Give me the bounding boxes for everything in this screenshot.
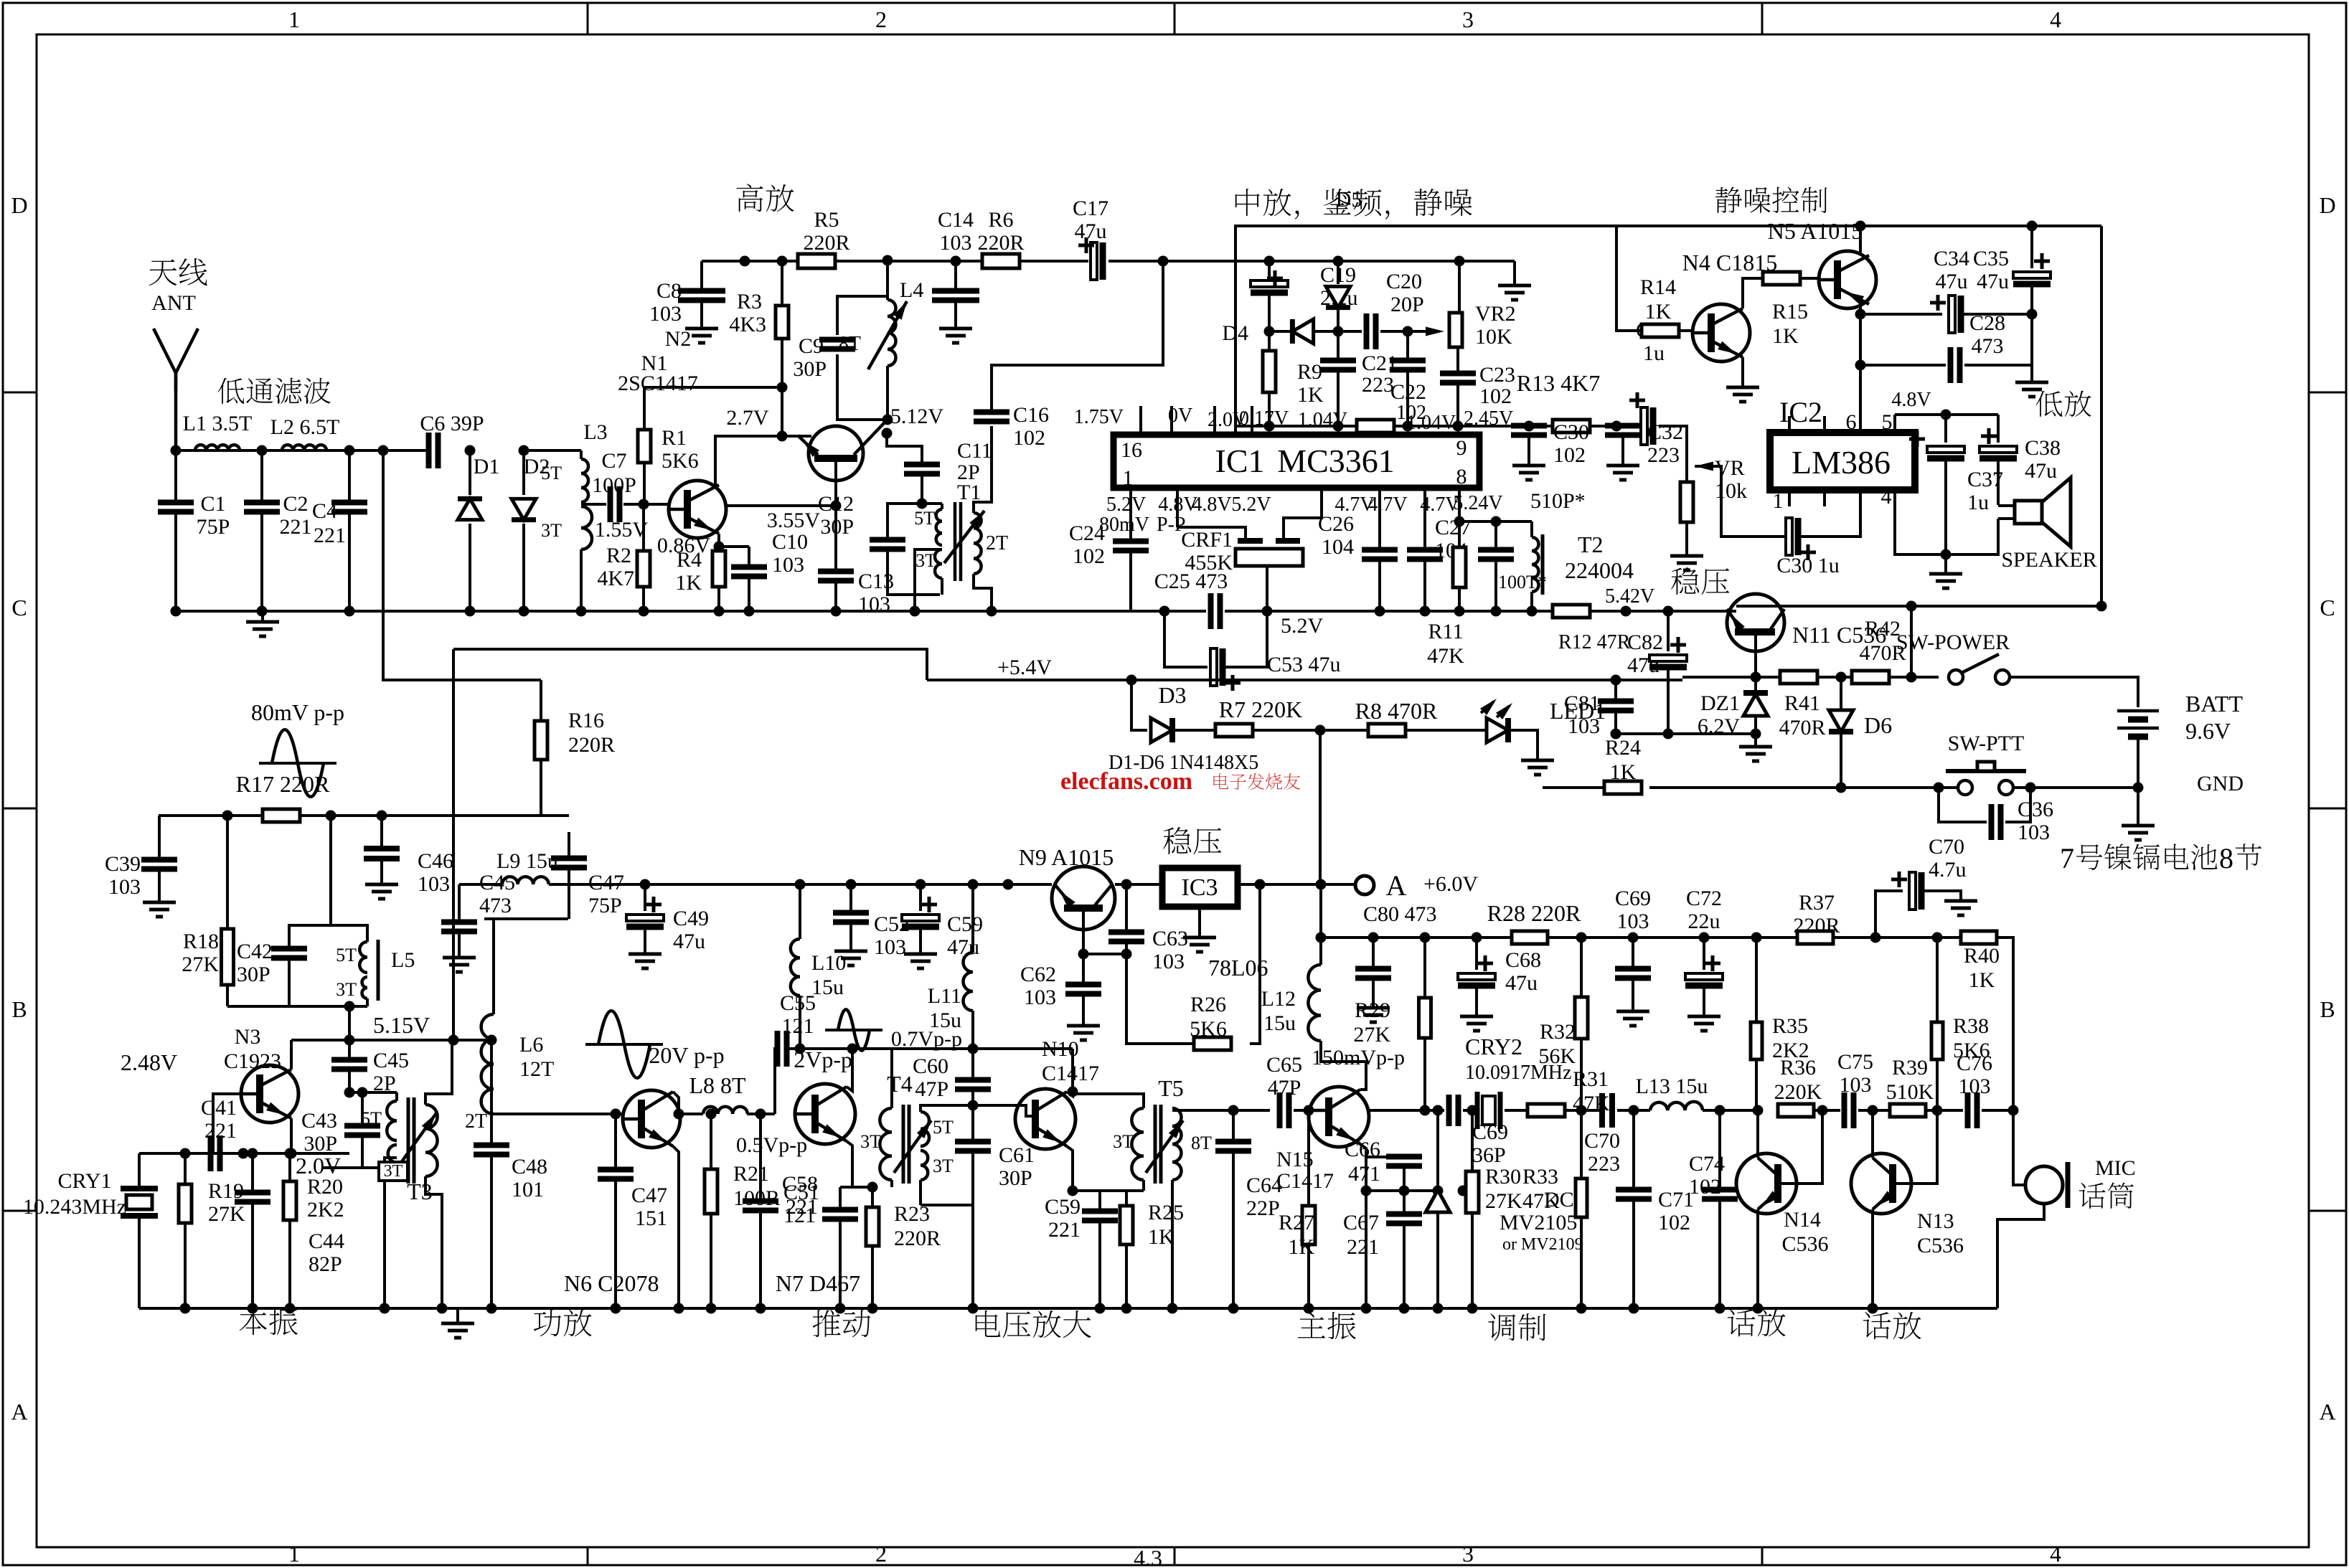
wire C16 top to rail	[992, 261, 1163, 412]
node C74 top	[1715, 1105, 1726, 1116]
wire R40 to mic bias	[1997, 938, 2013, 1110]
svg-text:103: 103	[649, 302, 682, 326]
grid tick right C|B	[2309, 808, 2346, 810]
svg-text:C1417: C1417	[1276, 1169, 1334, 1193]
capacitor C75 103	[1842, 1092, 1847, 1128]
node C25 left	[1159, 606, 1170, 617]
svg-text:C14: C14	[938, 208, 974, 232]
svg-text:R15: R15	[1772, 300, 1808, 323]
svg-text:5T: 5T	[914, 508, 935, 529]
svg-text:30P: 30P	[793, 357, 827, 381]
wire rail R5-C14	[835, 260, 982, 263]
resistor R7 220K	[1215, 724, 1253, 737]
resistor R40 1K	[1961, 931, 1997, 944]
svg-text:C74: C74	[1689, 1152, 1725, 1176]
wire y1608	[139, 1152, 349, 1155]
wire N10 emitter	[1067, 1146, 1073, 1191]
node A-line L12	[1316, 879, 1327, 890]
node C74 bus	[1715, 1303, 1726, 1314]
wire tank to 5.15V node	[348, 1006, 351, 1040]
svg-text:T5: T5	[1158, 1075, 1184, 1101]
svg-text:C42: C42	[237, 940, 273, 963]
wire DZ1 ground	[1754, 734, 1757, 747]
title RF amp 高放	[737, 184, 763, 212]
svg-text:1: 1	[1773, 489, 1784, 513]
capacitor C60 47P	[971, 1089, 974, 1105]
node N10 coll	[1068, 1087, 1078, 1097]
svg-text:221: 221	[786, 1195, 818, 1219]
svg-text:220R: 220R	[894, 1227, 941, 1250]
svg-text:R4: R4	[677, 548, 702, 572]
wire emitter to C10	[719, 545, 749, 548]
wire VR wiper to C30-1u loop	[1710, 466, 1784, 537]
capacitor C1 75P	[174, 450, 177, 502]
svg-text:C16: C16	[1013, 403, 1049, 427]
svg-text:L4: L4	[900, 278, 923, 302]
svg-text:47K: 47K	[1522, 1189, 1560, 1213]
svg-text:IC2: IC2	[1779, 396, 1822, 428]
title regulator 稳压 right	[1671, 567, 1699, 595]
wire Y594 line	[1235, 425, 1616, 428]
svg-text:47u: 47u	[947, 935, 979, 959]
wire R14 to N4	[1679, 329, 1694, 332]
wire 4.8V line	[1895, 413, 1998, 416]
node rail D5 area1	[1264, 256, 1275, 267]
node ptt right	[2025, 783, 2036, 793]
ground bottom bus 1	[456, 1308, 459, 1323]
capacitor C42 30P	[289, 925, 331, 948]
svg-text:C65: C65	[1266, 1053, 1302, 1077]
svg-text:2T: 2T	[465, 1110, 487, 1133]
capacitor C27 104	[1423, 488, 1426, 549]
svg-text:C17: C17	[1073, 197, 1108, 220]
svg-text:104: 104	[1322, 535, 1354, 559]
node R2 bus	[639, 606, 649, 617]
svg-text:3.55V: 3.55V	[767, 509, 821, 532]
wire y1450 to C48	[453, 1039, 491, 1042]
svg-text:A: A	[1386, 869, 1407, 902]
antenna ANT	[154, 329, 176, 450]
wire ptt wires	[1939, 786, 1958, 789]
node R38 rail3	[1932, 932, 1943, 943]
resistor R25 1K	[1125, 1191, 1128, 1206]
svg-text:20P: 20P	[1390, 293, 1424, 316]
svg-text:C49: C49	[673, 907, 709, 930]
svg-text:75P: 75P	[588, 894, 622, 917]
resistor R24 1K	[1543, 786, 1604, 789]
diode D6	[1840, 677, 1842, 710]
IC IC3 78L06	[1162, 868, 1238, 907]
wire N15 collector	[1321, 1041, 1366, 1090]
node R19 top	[180, 1148, 191, 1159]
svg-text:47u: 47u	[2025, 459, 2057, 483]
svg-text:4.7u: 4.7u	[1929, 858, 1967, 882]
svg-text:3T: 3T	[541, 520, 562, 541]
grid tick left D|C	[3, 392, 37, 394]
node C61 bus	[968, 1303, 979, 1314]
node T2 bus	[1527, 606, 1538, 617]
svg-text:3: 3	[1462, 6, 1474, 32]
wire T3 sec bottom	[424, 1176, 427, 1194]
svg-text:R11: R11	[1428, 620, 1464, 643]
svg-text:C75: C75	[1837, 1050, 1873, 1074]
svg-text:C28: C28	[1969, 311, 2005, 335]
node C6/D1	[465, 445, 476, 456]
wire N13 base v2	[1896, 1110, 1937, 1184]
node N7 coll rail	[847, 1044, 858, 1054]
svg-text:L5: L5	[391, 948, 415, 972]
capacitor C35 47u polarized	[2030, 226, 2033, 268]
svg-text:470R: 470R	[1779, 716, 1825, 740]
wire T1 3T tap	[915, 549, 942, 611]
svg-text:1K: 1K	[1610, 760, 1637, 784]
grid tick bottom 1|2	[587, 1547, 589, 1565]
capacitor C53 47u polarized loop	[1164, 611, 1208, 667]
capacitor C6 39P	[426, 433, 432, 468]
svg-text:L8 8T: L8 8T	[689, 1072, 746, 1098]
resistor R17 220R	[263, 809, 300, 822]
wire emitter-C66	[1365, 1191, 1367, 1308]
capacitor C69 36P	[1446, 1095, 1452, 1126]
svg-text:C39: C39	[105, 852, 141, 876]
capacitor C36 103	[1939, 788, 1987, 822]
node R17 right	[326, 811, 336, 821]
node N9 base	[1078, 949, 1089, 960]
svg-text:R31: R31	[1573, 1067, 1609, 1091]
node N2 collector join	[777, 431, 788, 442]
node A terminal	[1355, 876, 1374, 894]
wire speaker bottom	[1946, 519, 1998, 554]
wire C7 to N2 base	[623, 503, 677, 506]
node C14	[951, 256, 961, 267]
svg-text:5.2V: 5.2V	[1281, 614, 1324, 638]
node R11 bus	[1454, 606, 1465, 617]
wire R39-C76	[1926, 1109, 1963, 1112]
node N6 emitter bus	[674, 1303, 684, 1314]
capacitor C43 30P	[357, 1087, 368, 1098]
wire switch to battery	[2010, 677, 2138, 707]
wire N10 collector real	[1067, 1049, 1073, 1096]
wire rail2 regulator	[1682, 676, 1780, 679]
svg-text:R35: R35	[1772, 1014, 1808, 1038]
svg-text:5K6: 5K6	[662, 449, 699, 473]
svg-text:C82: C82	[1627, 630, 1663, 654]
svg-text:5.15V: 5.15V	[373, 1012, 430, 1038]
wire T5 secb	[1171, 1180, 1174, 1308]
wire N4 collector	[1743, 278, 1764, 308]
capacitor C2 221	[260, 450, 263, 502]
node R30 bus	[1467, 1303, 1478, 1314]
svg-text:D6: D6	[1864, 712, 1892, 738]
svg-text:1u: 1u	[1643, 341, 1665, 365]
svg-text:221: 221	[1347, 1235, 1379, 1259]
node C10 bus	[744, 606, 755, 617]
wire R29 bottom v2	[1423, 1038, 1426, 1110]
title regulator 稳压 middle	[1163, 827, 1191, 854]
svg-text:C30 1u: C30 1u	[1776, 554, 1840, 577]
node L2/C4	[344, 445, 355, 456]
svg-text:3T: 3T	[336, 979, 357, 1000]
svg-text:R13 4K7: R13 4K7	[1517, 370, 1600, 396]
node T1 sec bus	[987, 606, 997, 617]
svg-text:R30: R30	[1485, 1165, 1521, 1189]
capacitor C26 104	[1378, 488, 1381, 549]
diode D5	[1337, 261, 1340, 284]
wire N1 base stem	[834, 460, 837, 506]
capacitor C17 47u polarized	[1091, 242, 1097, 280]
svg-text:1K: 1K	[1969, 968, 1995, 992]
transformer T3	[395, 1092, 398, 1101]
capacitor C66 471 v2	[1386, 1154, 1422, 1160]
svg-text:CRY1: CRY1	[57, 1169, 111, 1193]
svg-text:510P*: 510P*	[1530, 489, 1586, 513]
node N6 collector	[674, 1109, 684, 1120]
node rail1 2664	[1906, 601, 1917, 612]
node D4 left	[1264, 326, 1275, 337]
svg-text:101: 101	[512, 1178, 544, 1201]
svg-text:C47: C47	[588, 871, 624, 894]
transistor N6 C2078 PA	[623, 1090, 680, 1148]
node C82 bottom	[1663, 729, 1674, 740]
ground LPF bus	[261, 611, 264, 622]
capacitor C48 101	[486, 1035, 497, 1046]
node D5 bottom	[1333, 326, 1344, 337]
wire C70-L13	[1617, 1109, 1650, 1112]
svg-text:3T: 3T	[915, 550, 936, 571]
svg-text:27K: 27K	[1353, 1023, 1390, 1047]
diode D3	[1151, 718, 1172, 742]
node R7R8 junction	[1315, 725, 1326, 736]
node C28 left	[1855, 360, 1866, 371]
svg-text:R26: R26	[1190, 993, 1226, 1016]
svg-text:R16: R16	[568, 709, 604, 732]
title squelch control 静噪控制	[1715, 187, 1742, 213]
svg-text:1.04V: 1.04V	[1406, 412, 1456, 434]
svg-text:47u: 47u	[1075, 219, 1107, 243]
wire R7-R8	[1253, 729, 1368, 732]
capacitor C67 221	[1386, 1212, 1422, 1217]
node R3 mid	[777, 382, 788, 393]
wire T3 primary bottom	[383, 1181, 386, 1308]
svg-text:80mV: 80mV	[1099, 514, 1149, 536]
grid tick top 2|3	[1174, 3, 1176, 34]
wire L8 right	[747, 1113, 775, 1115]
svg-text:221: 221	[204, 1119, 237, 1143]
microphone MIC	[2025, 1166, 2063, 1204]
resistor R38 5K6	[1936, 1059, 1939, 1110]
svg-text:30P: 30P	[303, 1132, 337, 1156]
resistor R13 4K7	[1553, 420, 1590, 433]
resistor R5 220R	[798, 254, 835, 268]
svg-text:C45: C45	[479, 871, 515, 894]
svg-text:N13: N13	[1917, 1209, 1954, 1233]
wire D4 row	[1269, 330, 1291, 333]
transistor N11 C536 regulator	[1727, 594, 1784, 651]
node varactor mid	[1433, 1186, 1444, 1196]
wire D3 feed	[1131, 680, 1147, 730]
wire TX line N15 out	[1369, 1109, 1444, 1112]
node L1/L2	[257, 445, 268, 456]
title audio amp 低放	[2036, 391, 2063, 417]
svg-text:22P: 22P	[1246, 1196, 1280, 1220]
wire N14 collector	[1756, 1110, 1759, 1158]
svg-text:1K: 1K	[675, 571, 702, 595]
IC2 pin stubs top	[1788, 416, 1791, 433]
svg-text:C1417: C1417	[1042, 1062, 1099, 1085]
node R23 bus	[867, 1303, 878, 1314]
svg-text:27K: 27K	[1485, 1189, 1522, 1213]
svg-text:1K: 1K	[1148, 1225, 1174, 1249]
svg-text:2.7V: 2.7V	[726, 406, 769, 430]
svg-text:R2: R2	[606, 544, 631, 567]
svg-text:C58: C58	[782, 1172, 818, 1196]
resistor R36 220K	[1778, 1104, 1814, 1117]
capacitor C28 473	[1860, 364, 1946, 367]
svg-text:121: 121	[782, 1014, 814, 1038]
resistor R14 1K	[1616, 226, 1642, 331]
wire C30 loop up	[1801, 490, 1860, 537]
wire R32 vertical	[1580, 938, 1583, 1110]
svg-text:30P: 30P	[999, 1166, 1032, 1190]
transistor N9 A1015	[1052, 866, 1115, 930]
wire R15 to N5	[1800, 277, 1823, 280]
svg-text:5.42V: 5.42V	[1605, 585, 1654, 608]
wire IC3 out	[1238, 883, 1355, 886]
svg-text:220R: 220R	[1793, 914, 1840, 938]
transformer T1	[922, 502, 942, 505]
svg-text:C60: C60	[913, 1054, 948, 1078]
wire N3 base	[213, 1094, 241, 1153]
svg-text:DZ1: DZ1	[1700, 691, 1740, 715]
svg-text:C46: C46	[418, 849, 453, 873]
svg-text:4: 4	[1881, 485, 1892, 509]
wire T4 primary bottom	[890, 1180, 893, 1187]
wire T5 sec top v2	[1172, 1109, 1270, 1112]
grid tick bottom 2|3	[1174, 1547, 1176, 1565]
wire TX tap down	[383, 450, 541, 680]
wire N2 emitter	[717, 534, 720, 547]
transistor N14 C536	[1736, 1153, 1797, 1214]
svg-text:L1 3.5T: L1 3.5T	[183, 412, 253, 435]
svg-text:10.243MHz: 10.243MHz	[23, 1195, 126, 1219]
wire N15 emitter	[1360, 1144, 1366, 1191]
IC2 pin stubs bottom	[1788, 490, 1791, 506]
node C70-4.7u	[1870, 932, 1881, 943]
svg-text:4: 4	[2050, 6, 2061, 32]
wire C8 rail	[702, 260, 745, 263]
svg-text:3T: 3T	[860, 1131, 881, 1152]
title mic amp 话放 1	[1728, 1309, 1756, 1336]
wire N6 collector	[673, 1092, 679, 1114]
wire rail C17 to squelch area	[1108, 260, 1515, 263]
svg-text:3T: 3T	[384, 1162, 403, 1181]
node C67 bus	[1399, 1303, 1410, 1314]
wire T5 top link	[1073, 1094, 1144, 1108]
svg-text:223: 223	[1588, 1152, 1620, 1176]
wire top rail	[713, 260, 798, 263]
svg-text:102: 102	[1073, 544, 1105, 568]
svg-text:C34: C34	[1934, 247, 1969, 270]
svg-text:2Vp-p: 2Vp-p	[794, 1047, 852, 1072]
svg-text:103: 103	[874, 935, 906, 959]
svg-text:100T*: 100T*	[1498, 572, 1547, 592]
wire C81/C82 bottom link	[1616, 732, 1756, 735]
svg-text:VR: VR	[1715, 456, 1745, 480]
svg-text:C4: C4	[312, 499, 337, 523]
svg-text:T2: T2	[1578, 532, 1604, 557]
svg-text:L9 15u: L9 15u	[496, 849, 558, 873]
wire LED ground	[1508, 730, 1538, 760]
resistor R11 47K	[1458, 488, 1461, 521]
wire gnd line	[1649, 786, 1939, 789]
node LPF1	[171, 445, 182, 456]
svg-text:C48: C48	[512, 1155, 547, 1179]
capacitor C62 103	[1082, 954, 1085, 984]
node C23 594	[1453, 421, 1464, 432]
node C44 top	[238, 1148, 249, 1159]
svg-text:C72: C72	[1686, 887, 1722, 910]
node N14 base top	[1817, 1105, 1828, 1116]
svg-text:R39: R39	[1892, 1056, 1928, 1080]
svg-text:47u: 47u	[1936, 270, 1968, 293]
svg-text:R12 47R: R12 47R	[1558, 631, 1631, 653]
label 20V p-p	[585, 1043, 663, 1046]
wire C65 to N15	[1294, 1109, 1309, 1112]
svg-text:MV2105: MV2105	[1500, 1211, 1577, 1234]
capacitor C70 223	[1599, 1093, 1605, 1128]
capacitor C19 2.2u polarized	[1268, 261, 1271, 282]
wire rail3 R37-R40	[1833, 936, 1961, 939]
transformer T5	[1131, 1108, 1144, 1180]
svg-text:SW-POWER: SW-POWER	[1896, 630, 2010, 654]
svg-text:2.0V: 2.0V	[296, 1153, 341, 1179]
svg-text:C20: C20	[1386, 270, 1422, 293]
node C44 wire	[248, 1148, 258, 1159]
varactor DC MV2105	[1433, 1105, 1444, 1116]
diode D1	[469, 450, 471, 495]
capacitor C61 30P	[971, 1105, 974, 1142]
title mic amp 话放 2	[1863, 1312, 1891, 1339]
svg-text:2K2: 2K2	[307, 1198, 344, 1222]
wire rail3	[1321, 936, 1512, 939]
svg-text:80mV p-p: 80mV p-p	[251, 699, 344, 725]
wire LPF to L3	[524, 449, 581, 452]
grid tick left C|B	[3, 808, 37, 810]
svg-text:L3: L3	[583, 420, 607, 444]
node DZ1 bottom	[1751, 729, 1761, 740]
svg-text:102: 102	[1658, 1211, 1690, 1234]
svg-text:103: 103	[1840, 1073, 1872, 1097]
capacitor C51 121	[759, 1114, 762, 1201]
inductor L12 15u	[1308, 965, 1321, 1041]
node C51 bus	[755, 1303, 766, 1314]
wire N5 emitter to C28 node	[1859, 314, 1862, 365]
inductor L8 8T	[703, 1107, 748, 1114]
svg-text:9.6V: 9.6V	[2185, 718, 2231, 744]
node C68	[1472, 932, 1482, 943]
svg-text:223: 223	[1647, 443, 1680, 467]
node C64 bus	[1228, 1303, 1239, 1314]
svg-text:C10: C10	[772, 530, 808, 554]
wire N14 base	[1781, 1110, 1822, 1184]
svg-text:C7: C7	[601, 449, 626, 473]
node 1405	[1003, 879, 1014, 890]
inductor L13 15u	[1650, 1102, 1703, 1110]
wire rail2 from left to regulator	[927, 679, 1682, 681]
resistor R12 47R	[1553, 605, 1590, 618]
svg-text:R29: R29	[1355, 998, 1390, 1022]
svg-text:4.7V: 4.7V	[1367, 493, 1407, 516]
